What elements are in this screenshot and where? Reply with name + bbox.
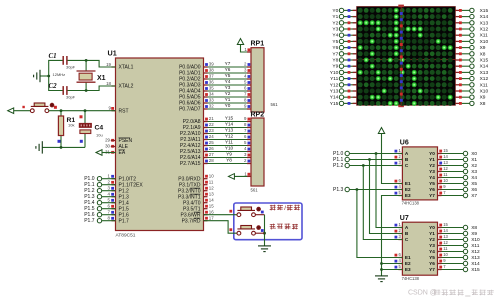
- svg-text:Y12: Y12: [225, 134, 234, 139]
- wire net Y2 (P0.5 to RP1 pin 7): [204, 91, 252, 97]
- logic state square (RST pin): [111, 107, 114, 110]
- wire net Y0 (P0.7 to RP1 pin 9): [204, 103, 252, 109]
- svg-text:X8: X8: [471, 225, 477, 231]
- svg-text:E3: E3: [405, 193, 411, 198]
- wire net Y4 (P0.3 to RP1 pin 5): [204, 79, 252, 85]
- svg-text:Y12: Y12: [330, 82, 339, 88]
- wire RST net: [49, 109, 116, 112]
- push button KEY1 (pause/start): [237, 207, 261, 217]
- terminal Y4 (matrix row input): [332, 33, 356, 39]
- svg-text:10: 10: [443, 252, 448, 257]
- svg-text:18: 18: [106, 81, 111, 86]
- wire U6 Y3 to terminal X3: [438, 166, 478, 175]
- terminal X8 (matrix column, row 7): [455, 51, 485, 57]
- wire net Y12 (P2.3 to RP2 pin 6): [204, 134, 252, 140]
- wire U6 Y0 to terminal X0: [438, 148, 478, 157]
- terminal X14 (matrix column, row 9): [455, 64, 488, 70]
- svg-text:Y7: Y7: [429, 193, 435, 198]
- svg-text:36: 36: [209, 80, 214, 85]
- U1 P3 pin numbers and state squares: [204, 173, 215, 220]
- svg-text:Y5: Y5: [429, 181, 435, 186]
- capacitor C1: [63, 56, 67, 65]
- svg-text:Y4: Y4: [225, 79, 231, 84]
- svg-text:14: 14: [443, 154, 448, 159]
- push button reset: [30, 103, 54, 113]
- svg-text:10k: 10k: [68, 122, 74, 127]
- wire P1.0 to U6.A and U7.A: [349, 152, 402, 227]
- svg-text:15: 15: [443, 148, 448, 153]
- svg-text:C2: C2: [49, 82, 58, 90]
- svg-text:EA: EA: [119, 150, 126, 156]
- svg-text:39: 39: [209, 62, 214, 67]
- svg-text:Y2: Y2: [429, 237, 435, 242]
- svg-text:X11: X11: [471, 243, 480, 249]
- svg-text:X8: X8: [480, 101, 486, 107]
- wire net Y11 (P2.4 to RP2 pin 5): [204, 140, 252, 146]
- svg-text:XTAL2: XTAL2: [119, 84, 134, 90]
- svg-text:X10: X10: [480, 39, 489, 45]
- terminal P1.2 (U1 side): [84, 188, 115, 194]
- svg-text:24: 24: [209, 134, 214, 139]
- U1 right pin names: [178, 65, 201, 225]
- terminal X13 (matrix column, row 2): [455, 20, 488, 26]
- svg-text:X11: X11: [480, 82, 489, 88]
- svg-text:AT89C51: AT89C51: [116, 232, 136, 238]
- svg-text:X14: X14: [471, 261, 480, 267]
- svg-text:X1: X1: [471, 157, 477, 163]
- wire VCC to U6.E1: [382, 134, 403, 184]
- wire net Y6 (P0.1 to RP1 pin 3): [204, 67, 252, 73]
- svg-text:74HC138: 74HC138: [402, 200, 420, 205]
- wire net Y3 (P0.4 to RP1 pin 6): [204, 85, 252, 91]
- svg-text:X4: X4: [471, 175, 477, 181]
- svg-text:P0.7/AD7: P0.7/AD7: [179, 107, 201, 113]
- svg-text:E2: E2: [405, 187, 411, 192]
- svg-text:15: 15: [443, 222, 448, 227]
- capacitor C2: [63, 86, 67, 95]
- logic state square (button1 left): [229, 210, 232, 213]
- wire U6 Y1 to terminal X1: [438, 154, 478, 163]
- svg-text:Y1: Y1: [332, 14, 338, 20]
- push button KEY2 (direction): [237, 225, 261, 235]
- wire P3.6 to button 1: [204, 214, 238, 216]
- svg-text:Y3: Y3: [332, 26, 338, 32]
- logic state square (button2 actuator): [261, 229, 264, 232]
- svg-text:X15: X15: [471, 267, 480, 273]
- terminal Y15 (matrix row input): [330, 101, 357, 107]
- terminal Y12 (matrix row input): [330, 82, 357, 88]
- wire reset ground rail: [42, 146, 85, 149]
- capacitor C4 electrolytic: [79, 111, 91, 148]
- svg-text:Y14: Y14: [330, 95, 339, 101]
- svg-text:Y0: Y0: [429, 151, 435, 156]
- svg-text:X1: X1: [97, 75, 106, 82]
- svg-text:28: 28: [209, 158, 214, 163]
- svg-text:16: 16: [209, 209, 214, 214]
- svg-text:Y1: Y1: [429, 231, 435, 236]
- svg-text:X11: X11: [480, 33, 489, 39]
- wire RP2 pin1 to terminal: [234, 175, 251, 177]
- svg-text:Y0: Y0: [332, 8, 338, 14]
- logic state square RP1 pin1: [248, 48, 251, 51]
- svg-text:Y3: Y3: [225, 85, 231, 90]
- decoder U6 74HC138 body: [402, 147, 437, 200]
- LED matrix middle pin indicator squares: [400, 7, 403, 105]
- text pause/start label: [270, 205, 300, 212]
- wire net Y7 (P0.0 to RP1 pin 2): [204, 61, 252, 67]
- terminal P1.5 (U1 side): [84, 206, 115, 212]
- svg-text:Y7: Y7: [332, 51, 338, 57]
- wire net Y10 (P2.5 to RP2 pin 4): [204, 146, 252, 152]
- wire U7 Y6 to terminal X14: [438, 258, 481, 267]
- svg-text:561: 561: [251, 188, 259, 193]
- terminal Y1 (matrix row input): [332, 14, 356, 20]
- svg-text:10u: 10u: [96, 132, 103, 137]
- svg-text:Y11: Y11: [225, 140, 233, 145]
- wire button1 to common: [255, 215, 266, 246]
- svg-text:X15: X15: [480, 8, 489, 14]
- wire P1.1 to U6.B and U7.B: [349, 158, 402, 233]
- wire net Y14 (P2.1 to RP2 pin 8): [204, 122, 252, 128]
- U7 left pin numbers: [395, 222, 403, 269]
- svg-text:Y13: Y13: [225, 128, 234, 133]
- svg-text:P1.7: P1.7: [84, 218, 95, 224]
- svg-text:P2.7/A15: P2.7/A15: [180, 161, 201, 167]
- terminal P1.3 (U1 side): [84, 194, 115, 200]
- terminal X9 (matrix column, row 14): [455, 95, 485, 101]
- terminal P1.7 (U1 side): [84, 218, 115, 224]
- svg-text:X14: X14: [480, 14, 489, 20]
- svg-text:X10: X10: [471, 237, 480, 243]
- wire P1.3 to U6.E2 and U7.E1: [349, 188, 402, 257]
- svg-text:CSDN @: CSDN @: [408, 289, 437, 296]
- svg-text:U7: U7: [400, 215, 409, 222]
- svg-text:X8: X8: [480, 51, 486, 57]
- wire U6 Y2 to terminal X2: [438, 160, 478, 169]
- wire XTAL2 net (C2 row to XTAL2 pin): [67, 86, 115, 92]
- ground (buttons): [258, 246, 271, 252]
- logic state square (reset button left): [22, 106, 24, 108]
- svg-text:Y2: Y2: [332, 20, 338, 26]
- logic state square (reset button right): [54, 106, 57, 109]
- svg-text:X6: X6: [471, 187, 477, 193]
- svg-text:74HC138: 74HC138: [402, 276, 420, 281]
- svg-text:Y5: Y5: [429, 255, 435, 260]
- svg-text:Y9: Y9: [332, 64, 338, 70]
- svg-text:X13: X13: [471, 255, 480, 261]
- svg-text:Y1: Y1: [225, 97, 231, 102]
- svg-text:E1: E1: [405, 181, 411, 186]
- IC U1 AT89C51 microcontroller body: [116, 58, 204, 231]
- svg-text:Y14: Y14: [225, 122, 234, 127]
- terminal (left arrow) reset input: [8, 108, 31, 114]
- wire U7 Y4 to terminal X12: [438, 246, 481, 255]
- terminal X15 (matrix column, row 8): [455, 57, 488, 63]
- wire net Y1 (P0.6 to RP1 pin 8): [204, 97, 252, 103]
- power terminal (RP1): [237, 39, 243, 45]
- terminal Y6 (matrix row input): [332, 45, 356, 51]
- terminal X12 (matrix column, row 11): [455, 76, 488, 82]
- wire U7 Y3 to terminal X11: [438, 240, 480, 249]
- svg-text:X12: X12: [471, 249, 480, 255]
- svg-text:X13: X13: [480, 20, 489, 26]
- svg-text:13: 13: [209, 191, 214, 196]
- svg-text:U6: U6: [400, 140, 409, 147]
- svg-text:19: 19: [106, 62, 111, 67]
- terminal X8 (matrix column, row 15): [455, 101, 485, 107]
- terminal P1.4 (U1 side): [84, 200, 115, 206]
- svg-text:23: 23: [209, 128, 214, 133]
- svg-text:11: 11: [443, 172, 448, 177]
- svg-text:Y0: Y0: [429, 225, 435, 230]
- svg-text:33: 33: [209, 98, 214, 103]
- terminal Y8 (matrix row input): [332, 57, 356, 63]
- logic state square (button1 actuator): [261, 211, 264, 214]
- svg-text:X7: X7: [471, 193, 477, 199]
- terminal P1.0 (decoder side): [333, 151, 349, 157]
- ground (reset): [36, 141, 42, 153]
- svg-text:30: 30: [105, 143, 110, 148]
- wire U6 Y5 to terminal X5: [438, 178, 478, 187]
- svg-text:/: /: [284, 205, 286, 212]
- svg-text:P3.7/RD: P3.7/RD: [182, 218, 201, 224]
- svg-text:Y13: Y13: [330, 88, 339, 94]
- terminal Y10 (matrix row input): [330, 70, 357, 76]
- wire U6 Y7 to terminal X7: [438, 190, 478, 199]
- svg-text:Y9: Y9: [226, 152, 232, 157]
- terminal X10 (matrix column, row 5): [455, 39, 488, 45]
- annotation blue box: [234, 203, 302, 240]
- svg-text:Y2: Y2: [225, 91, 231, 96]
- svg-text:Y15: Y15: [330, 101, 339, 107]
- terminal Y2 (matrix row input): [332, 20, 356, 26]
- terminal P1.3 (decoder side): [333, 187, 349, 193]
- svg-text:X12: X12: [480, 76, 489, 82]
- terminal P1.6 (U1 side): [84, 212, 115, 218]
- svg-text:X13: X13: [480, 70, 489, 76]
- U1 left pin names: [119, 65, 144, 225]
- U1 left pin numbers and stubs: [105, 62, 115, 221]
- terminal Y0 (matrix row input): [332, 8, 356, 14]
- svg-text:P1.2: P1.2: [333, 163, 344, 169]
- terminal X11 (matrix column, row 12): [455, 82, 488, 88]
- wire net Y13 (P2.2 to RP2 pin 7): [204, 128, 252, 134]
- svg-text:XTAL1: XTAL1: [119, 65, 134, 71]
- svg-text:X15: X15: [480, 57, 489, 63]
- terminal Y14 (matrix row input): [330, 95, 357, 101]
- svg-text:30pF: 30pF: [66, 65, 76, 70]
- terminal (left arrow) RP2 pin1: [228, 174, 234, 180]
- svg-text:Y0: Y0: [225, 103, 231, 108]
- svg-text:Y7: Y7: [429, 267, 435, 272]
- wire C1-C2 left rail to ground: [40, 60, 63, 90]
- svg-text:C4: C4: [95, 124, 104, 131]
- wire U7 Y2 to terminal X10: [438, 234, 481, 243]
- svg-text:11: 11: [443, 246, 448, 251]
- svg-text:10: 10: [209, 173, 214, 178]
- svg-text:X10: X10: [480, 88, 489, 94]
- watermark CSDN: [408, 289, 494, 296]
- LED matrix dots grid: [358, 8, 453, 106]
- svg-text:14: 14: [443, 228, 448, 233]
- logic state square RP2 pin1: [248, 173, 251, 176]
- svg-text:Y2: Y2: [429, 163, 435, 168]
- svg-text:Y8: Y8: [332, 57, 338, 63]
- LED dot-matrix display body: [357, 5, 456, 108]
- svg-text:Y7: Y7: [225, 61, 231, 66]
- ground (decoders): [375, 276, 388, 282]
- svg-text:12: 12: [209, 185, 214, 190]
- svg-text:Y10: Y10: [330, 70, 339, 76]
- decoder U7 74HC138 body: [402, 222, 437, 275]
- wire U7 Y0 to terminal X8: [438, 222, 478, 231]
- terminal X10 (matrix column, row 13): [455, 88, 488, 94]
- terminal X15 (matrix column, row 0): [455, 8, 488, 14]
- svg-text:12: 12: [443, 240, 448, 245]
- wire RP1 pin1 to power: [241, 45, 252, 53]
- svg-text:E1: E1: [405, 255, 411, 260]
- wire net Y15 (P2.0 to RP2 pin 9): [204, 116, 252, 122]
- svg-text:RP2: RP2: [251, 112, 265, 119]
- wire XTAL1 net (C1 row to XTAL1 pin): [67, 59, 115, 67]
- ground (crystal): [34, 70, 40, 82]
- svg-text:Y3: Y3: [429, 169, 435, 174]
- wire U7 Y1 to terminal X9: [438, 228, 478, 237]
- svg-text:Y8: Y8: [226, 158, 232, 163]
- svg-text:12MHz: 12MHz: [53, 72, 66, 77]
- svg-text:27: 27: [209, 152, 214, 157]
- svg-text:C1: C1: [49, 52, 57, 60]
- terminal Y9 (matrix row input): [332, 64, 356, 70]
- svg-text:29: 29: [105, 137, 110, 142]
- svg-text:14: 14: [209, 197, 214, 202]
- svg-text:26: 26: [209, 146, 214, 151]
- svg-text:561: 561: [271, 102, 279, 107]
- logic state square (R1 bottom): [58, 140, 61, 143]
- resistor pack RP1: [251, 48, 264, 112]
- logic state square (C4 top): [80, 115, 83, 118]
- svg-text:Y5: Y5: [225, 73, 231, 78]
- wire button2 to common: [255, 232, 264, 234]
- wire net Y9 (P2.6 to RP2 pin 3): [204, 152, 252, 158]
- wire P3.7 to button 2: [204, 221, 238, 234]
- svg-text:RP1: RP1: [251, 40, 265, 47]
- svg-text:Y6: Y6: [332, 45, 338, 51]
- U7 pin names: [405, 225, 435, 272]
- terminal Y3 (matrix row input): [332, 26, 356, 32]
- svg-text:25: 25: [209, 140, 214, 145]
- terminal (left arrow) EA pin: [96, 150, 116, 156]
- terminal X13 (matrix column, row 10): [455, 70, 488, 76]
- wire U6 Y6 to terminal X6: [438, 184, 478, 193]
- svg-text:22: 22: [209, 122, 214, 127]
- svg-text:Y4: Y4: [429, 175, 435, 180]
- svg-text:X5: X5: [471, 181, 477, 187]
- svg-text:Y11: Y11: [330, 76, 339, 82]
- svg-text:Y1: Y1: [429, 157, 435, 162]
- U6 pin names: [405, 151, 435, 198]
- terminal X9 (matrix column, row 6): [455, 45, 485, 51]
- svg-text:E3: E3: [405, 267, 411, 272]
- svg-text:Y6: Y6: [225, 67, 231, 72]
- terminal Y11 (matrix row input): [330, 76, 356, 82]
- svg-text:X2: X2: [471, 163, 477, 169]
- svg-text:13: 13: [443, 234, 448, 239]
- svg-text:35: 35: [209, 86, 214, 91]
- terminal Y7 (matrix row input): [332, 51, 356, 57]
- svg-text:30pF: 30pF: [66, 95, 76, 100]
- svg-text:Y3: Y3: [429, 243, 435, 248]
- svg-text:21: 21: [209, 116, 214, 121]
- crystal X1: [77, 60, 96, 90]
- wire net Y5 (P0.2 to RP1 pin 4): [204, 73, 252, 79]
- svg-text:X9: X9: [480, 95, 486, 101]
- svg-text:Y5: Y5: [332, 39, 338, 45]
- wire U7 Y7 to terminal X15: [438, 264, 481, 273]
- svg-text:Y6: Y6: [429, 187, 435, 192]
- svg-text:Y10: Y10: [225, 146, 234, 151]
- terminal X11 (matrix column, row 4): [455, 33, 488, 39]
- terminal P1.0 (U1 side): [84, 176, 115, 182]
- svg-text:11: 11: [209, 179, 214, 184]
- svg-text:Y6: Y6: [429, 261, 435, 266]
- svg-text:Y15: Y15: [225, 116, 234, 121]
- svg-text:Y4: Y4: [429, 249, 435, 254]
- svg-text:X14: X14: [480, 64, 489, 70]
- svg-text:X9: X9: [480, 45, 486, 51]
- terminal Y5 (matrix row input): [332, 39, 356, 45]
- svg-text:34: 34: [209, 92, 214, 97]
- svg-text:13: 13: [443, 160, 448, 165]
- svg-text:RST: RST: [119, 108, 129, 114]
- svg-text:17: 17: [209, 215, 214, 220]
- terminal Y13 (matrix row input): [330, 88, 357, 94]
- wire U7 Y5 to terminal X13: [438, 252, 481, 261]
- terminal X12 (matrix column, row 3): [455, 26, 488, 32]
- logic state square (button2 left): [229, 228, 232, 231]
- svg-text:15: 15: [209, 203, 214, 208]
- terminal X14 (matrix column, row 1): [455, 14, 488, 20]
- wire U6 Y4 to terminal X4: [438, 172, 478, 181]
- svg-text:32: 32: [209, 104, 214, 109]
- wire net Y8 (P2.7 to RP2 pin 2): [204, 158, 252, 164]
- svg-text:10: 10: [443, 178, 448, 183]
- svg-text:E2: E2: [405, 261, 411, 266]
- resistor pack RP2: [251, 118, 264, 186]
- U6 left pin numbers: [395, 148, 403, 195]
- svg-text:Y4: Y4: [332, 33, 338, 39]
- svg-text:P1.3: P1.3: [333, 187, 344, 193]
- svg-text:X9: X9: [471, 231, 477, 237]
- svg-text:U1: U1: [108, 48, 117, 57]
- power terminal (U6): [378, 128, 384, 134]
- svg-text:37: 37: [209, 74, 214, 79]
- logic state square (C4 bottom): [80, 140, 83, 143]
- wire U6.E3 / U7.E2 / U7.E3 to ground: [380, 196, 402, 276]
- svg-text:P1.7: P1.7: [119, 218, 130, 224]
- terminal P1.1 (U1 side): [84, 182, 115, 188]
- svg-text:38: 38: [209, 68, 214, 73]
- svg-text:12: 12: [443, 166, 448, 171]
- wire P1.2 to U6.C and U7.C: [349, 164, 402, 239]
- resistor R1: [58, 111, 63, 148]
- svg-text:X0: X0: [471, 151, 477, 157]
- text switch-direction label: [270, 224, 298, 230]
- terminal P1.1 (decoder side): [333, 157, 349, 163]
- svg-text:X3: X3: [471, 169, 477, 175]
- svg-text:X12: X12: [480, 26, 489, 32]
- terminal P1.2 (decoder side): [333, 163, 349, 169]
